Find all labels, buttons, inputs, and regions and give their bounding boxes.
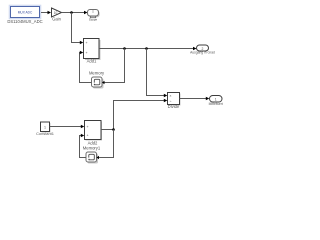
svg-text:÷: ÷ [170, 100, 172, 104]
wire Add2 feedback down to Memory1 input [99, 130, 114, 158]
svg-text:Add1: Add1 [87, 59, 97, 64]
wire junction down to Add1 input 1 [72, 13, 82, 43]
block DS1104MUX_ADC [7, 5, 42, 24]
svg-text:Ausgang in Grad: Ausgang in Grad [190, 50, 215, 54]
svg-text:Divide: Divide [168, 104, 180, 109]
wire Memory1 output up to Add2 input 2 [80, 136, 87, 158]
svg-text:+: + [85, 51, 87, 55]
memory Memory (flipped) [89, 71, 105, 89]
svg-text:Memory1: Memory1 [83, 146, 101, 151]
wire ADC to Gain [41, 12, 49, 14]
scope Scope [88, 10, 100, 22]
svg-text:+: + [86, 134, 88, 138]
svg-text:+: + [86, 125, 88, 129]
svg-text:Gain: Gain [52, 17, 62, 22]
memory Memory1 (flipped) [83, 146, 101, 164]
sum block Add2 [85, 121, 103, 146]
wire Add2 output up to Divide input 2 [101, 101, 165, 130]
svg-text:1: 1 [44, 125, 46, 129]
outport 2 Ausgang in Grad [190, 45, 215, 54]
svg-text:Memory: Memory [89, 71, 105, 76]
wire Memory output up to Add1 input 2 [80, 53, 92, 83]
junction for memory feedback [123, 47, 126, 50]
svg-text:DS1104MUX_ADC: DS1104MUX_ADC [7, 19, 42, 24]
svg-text:×: × [170, 94, 172, 98]
svg-text:MUX ADC: MUX ADC [18, 11, 33, 15]
wire Divide output to outport Mittelwert [180, 98, 208, 100]
svg-text:Scope: Scope [89, 17, 98, 21]
wire Gain to Scope [62, 12, 86, 14]
svg-text:+: + [85, 41, 87, 45]
junction Add2 output [112, 128, 115, 131]
svg-text:1: 1 [215, 98, 217, 102]
constant block Constant1 [36, 122, 54, 136]
svg-text:Mittelwert: Mittelwert [209, 102, 223, 106]
divide block Divide [168, 93, 181, 110]
junction at gain output [70, 11, 73, 14]
svg-text:Constant1: Constant1 [36, 131, 54, 136]
gain Gain [52, 8, 62, 22]
wire divide branch down to Divide input 1 [147, 49, 166, 96]
junction for divide branch [145, 47, 148, 50]
sum block Add1 [84, 39, 101, 64]
wire Add1 output to outport Ausgang in Grad [99, 48, 194, 50]
wire Constant1 to Add2 input 1 [50, 126, 83, 128]
wire Add1 feedback down to Memory input [104, 49, 125, 83]
svg-text:10: 10 [54, 11, 58, 15]
svg-text:Add2: Add2 [88, 140, 98, 145]
outport 1 Mittelwert [209, 96, 223, 107]
